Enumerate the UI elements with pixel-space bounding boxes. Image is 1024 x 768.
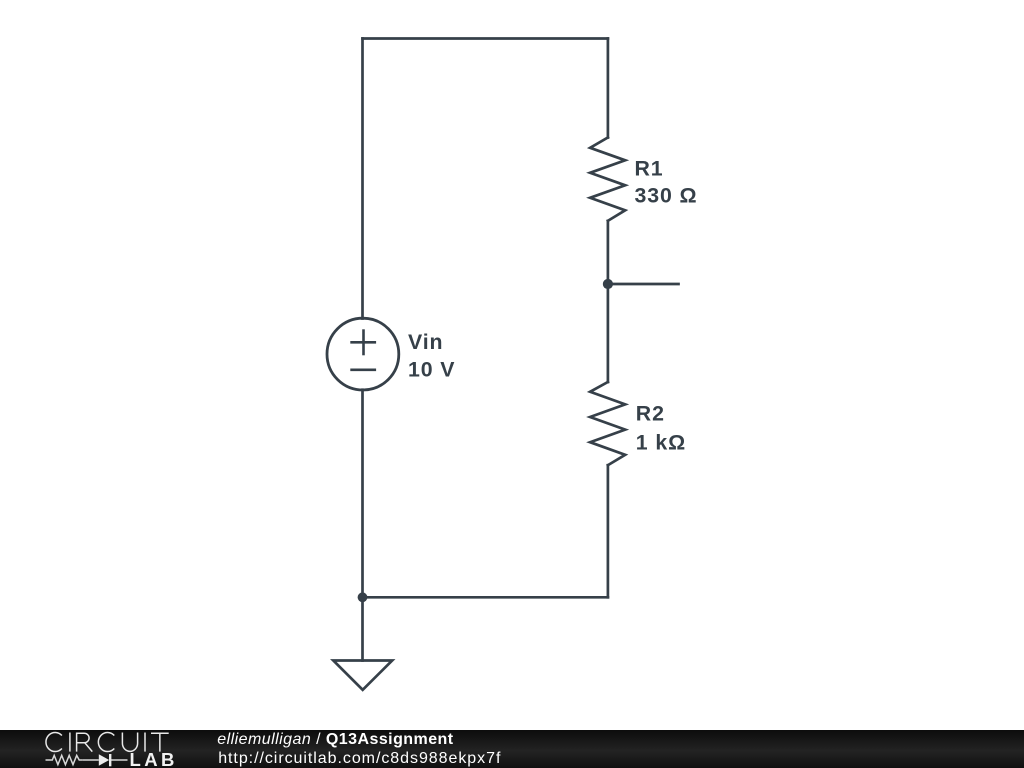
wire left vertical upper [361, 39, 364, 319]
CircuitLab logo diode [99, 754, 109, 765]
wire output tap [608, 283, 679, 286]
voltage source plus sign [352, 331, 375, 354]
wire ground stub [361, 597, 364, 660]
CircuitLab logo resistor symbol [46, 755, 83, 764]
svg-text:LAB: LAB [130, 749, 178, 768]
CircuitLab logo wire to diode [82, 759, 98, 761]
CircuitLab logo wordmark CIRCUIT [46, 732, 169, 751]
wire bottom horizontal [363, 596, 608, 599]
svg-text:http://circuitlab.com/c8ds988e: http://circuitlab.com/c8ds988ekpx7f [218, 750, 501, 767]
ground symbol [333, 661, 392, 690]
wire R1 bottom lead to node [607, 221, 610, 284]
footer bar [0, 730, 1024, 768]
wire R2 bottom lead [607, 465, 610, 597]
wire left vertical lower [361, 390, 364, 598]
resistor R2 [590, 382, 625, 465]
resistor R1 [590, 138, 625, 221]
voltage source minus sign [352, 368, 375, 371]
wire right vertical upper (R1 top lead) [607, 39, 610, 138]
svg-text:elliemulligan / Q13Assignment: elliemulligan / Q13Assignment [217, 731, 453, 748]
node junction ground [358, 592, 368, 602]
CircuitLab logo diode wire out [110, 759, 128, 761]
voltage source Vin circle [327, 318, 399, 390]
wire top horizontal [363, 37, 608, 40]
wire node to R2 top lead [607, 284, 610, 382]
node junction out [603, 279, 613, 289]
